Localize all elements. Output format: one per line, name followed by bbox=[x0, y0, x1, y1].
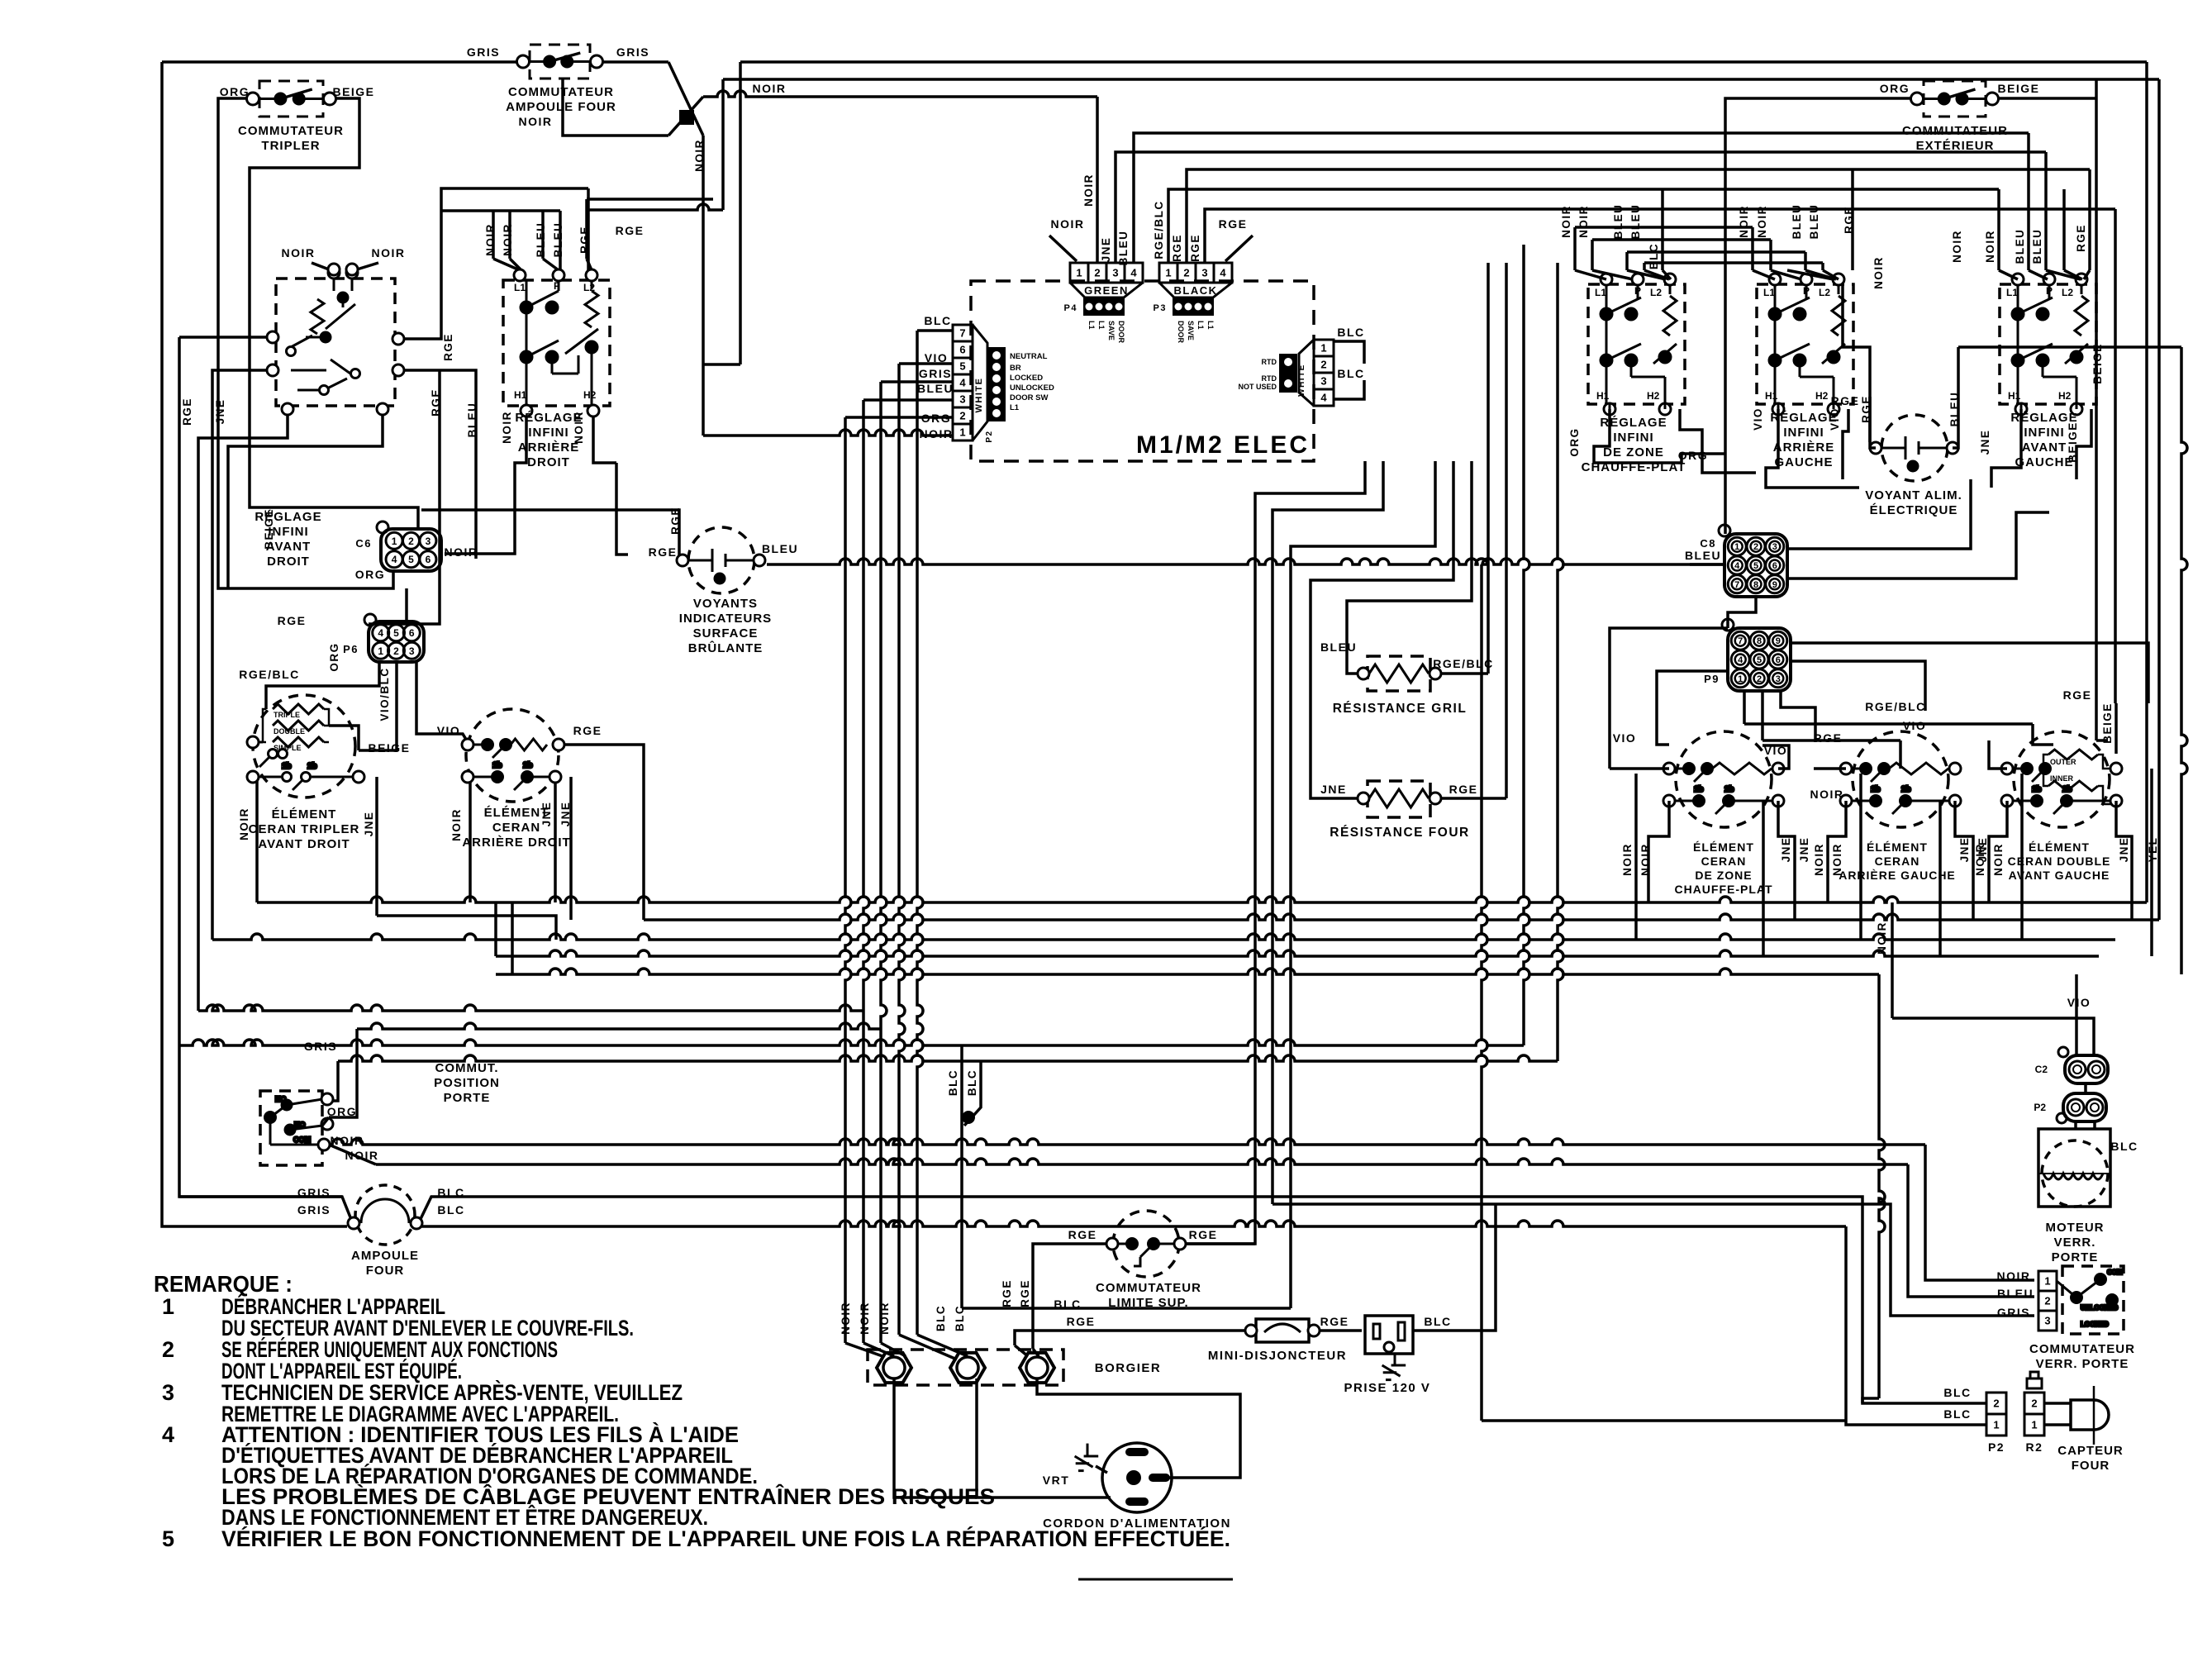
control réglage infini arrière droit box bbox=[503, 280, 610, 406]
wire fan avg P bbox=[2029, 270, 2048, 279]
svg-text:H1: H1 bbox=[514, 389, 527, 401]
svg-text:BEIGE: BEIGE bbox=[263, 508, 275, 550]
wire band drop 2455 BLEU avant gauche bbox=[2027, 133, 2030, 270]
wire bus v1110 bbox=[917, 331, 923, 1335]
svg-text:GRIS: GRIS bbox=[616, 45, 649, 59]
svg-text:BEIGE: BEIGE bbox=[332, 85, 374, 98]
wire ORG bus to WHITE cell2 bbox=[845, 416, 953, 419]
svg-text:RGE: RGE bbox=[1320, 1315, 1349, 1328]
wire band drop 2012 BLC zone bbox=[1661, 189, 1664, 270]
svg-text:VOYANT ALIM.ÉLECTRIQUE: VOYANT ALIM.ÉLECTRIQUE bbox=[1865, 488, 1962, 517]
control réglage infini arrière gauche internals bbox=[1769, 284, 1845, 409]
svg-text:BLC: BLC bbox=[1337, 326, 1364, 339]
svg-text:2b: 2b bbox=[523, 761, 533, 770]
wire Y5 left drop bbox=[511, 902, 514, 974]
wire JNE élément arr droit bbox=[554, 777, 557, 902]
svg-text:NOIR: NOIR bbox=[1984, 230, 1996, 263]
wire P9 bottom out3 bbox=[1781, 691, 1815, 742]
wire nest drop 2206 bbox=[1821, 263, 1824, 270]
wire VIO between zone bbox=[1762, 745, 1789, 769]
wire BLC pair v1164 bbox=[960, 1045, 963, 1308]
svg-text:P2: P2 bbox=[985, 430, 994, 442]
svg-text:1: 1 bbox=[1076, 267, 1082, 279]
svg-text:COM: COM bbox=[2107, 1269, 2123, 1276]
wire RGE/BLC res gril right bbox=[1487, 263, 1490, 674]
breaker arc bbox=[1264, 1324, 1301, 1332]
wire elem double NOIR2 drop bbox=[2020, 774, 2024, 940]
svg-text:VIO: VIO bbox=[925, 351, 949, 364]
wire fan zone BLC bbox=[1663, 270, 1671, 279]
wire NOIR leader GREEN pin1 bbox=[1049, 236, 1077, 261]
wire right border 2640 bbox=[2181, 347, 2187, 974]
svg-text:COMMUTATEURLIMITE SUP.: COMMUTATEURLIMITE SUP. bbox=[1096, 1281, 1201, 1310]
svg-text:VIO: VIO bbox=[437, 724, 461, 737]
terminal ceran double avant gauche left bbox=[2001, 763, 2013, 774]
svg-text:NC: NC bbox=[275, 1095, 286, 1103]
wire y441 link bbox=[703, 363, 740, 366]
wire RGE/BLC to élément triple bbox=[266, 662, 379, 709]
wire NOIR commut porte 1 bbox=[329, 1139, 1925, 1145]
wire x896 vertical bbox=[739, 62, 742, 364]
resistor triple bbox=[273, 704, 324, 714]
wire RC 1844 vertical bbox=[1524, 245, 1529, 1045]
wire Y7 bus bbox=[357, 1023, 881, 1029]
wire nest bus NOIR a bbox=[1575, 226, 1753, 229]
element arr droit lower contacts bbox=[473, 761, 549, 790]
terminal ceran arrière gauche bot-right bbox=[1949, 795, 1961, 807]
svg-text:RGE: RGE bbox=[573, 724, 602, 737]
svg-text:L2: L2 bbox=[583, 282, 595, 293]
svg-text:BLEU: BLEU bbox=[1808, 204, 1820, 240]
svg-text:3: 3 bbox=[959, 393, 965, 406]
wire elem arr gauche bot-right drop bbox=[1955, 801, 1973, 920]
wire fan zone P bbox=[1592, 270, 1633, 279]
svg-text:2b: 2b bbox=[1724, 785, 1734, 794]
wire C2 up to Y5 bbox=[2075, 974, 2078, 1055]
wire elem zone JNE2 drop bbox=[1762, 801, 1765, 956]
svg-text:JNE: JNE bbox=[540, 802, 553, 827]
terminal réglage infini arrière gauche H2 bbox=[1828, 403, 1839, 415]
svg-text:ORG: ORG bbox=[1568, 427, 1581, 456]
terminal ceran arrière gauche right bbox=[1949, 763, 1961, 774]
switch position porte internals bbox=[265, 1095, 323, 1145]
svg-text:GRIS: GRIS bbox=[297, 1186, 331, 1199]
svg-text:BEIGE: BEIGE bbox=[2091, 343, 2104, 384]
svg-text:7: 7 bbox=[1734, 580, 1739, 590]
svg-text:NOIR: NOIR bbox=[920, 427, 954, 440]
element ceran arrière gauche top path bbox=[1852, 764, 1890, 783]
svg-text:6: 6 bbox=[1776, 655, 1781, 665]
motor moteur verr porte box bbox=[2038, 1129, 2110, 1207]
svg-text:BLEU: BLEU bbox=[1685, 549, 1721, 562]
svg-text:NOIR: NOIR bbox=[693, 139, 706, 172]
wire fan hex3 b bbox=[1033, 1349, 1039, 1356]
wire nest bus BLEU b bbox=[1644, 261, 1823, 264]
element tripler switch bbox=[259, 742, 288, 767]
terminal ceran double avant gauche bot-right bbox=[2110, 795, 2122, 807]
svg-text:GRIS: GRIS bbox=[467, 45, 500, 59]
motor circle bbox=[2042, 1140, 2108, 1207]
wire NOIR leader a bbox=[312, 263, 329, 269]
svg-text:JNE: JNE bbox=[2118, 837, 2130, 863]
svg-text:VÉRIFIER LE BON FONCTIONNEMENT: VÉRIFIER LE BON FONCTIONNEMENT DE L'APPA… bbox=[221, 1526, 1230, 1551]
svg-text:BLEU: BLEU bbox=[466, 402, 478, 438]
note REMARQUE items bbox=[162, 1293, 1230, 1551]
wire Y3 bus bbox=[212, 934, 2115, 940]
wire fan Pb arr droit bbox=[559, 259, 562, 270]
wire ORG commut porte bbox=[329, 1029, 357, 1117]
terminal arr droit L1 bbox=[514, 269, 526, 281]
svg-text:NOIR: NOIR bbox=[878, 1302, 891, 1335]
terminal res four right bbox=[1429, 793, 1441, 804]
svg-text:COM: COM bbox=[293, 1136, 311, 1144]
wire BEIGE from comm ext to avant gauche bbox=[2096, 739, 2108, 742]
svg-text:2: 2 bbox=[1320, 359, 1326, 371]
svg-text:1: 1 bbox=[1165, 267, 1171, 279]
hexnut borgier 2 bbox=[950, 1353, 985, 1383]
svg-text:1b: 1b bbox=[2032, 785, 2042, 794]
svg-text:OUTER: OUTER bbox=[2050, 758, 2076, 766]
svg-text:NOIR: NOIR bbox=[753, 82, 787, 95]
svg-text:BLEU: BLEU bbox=[1320, 640, 1357, 654]
indicator voyant alim circle bbox=[1881, 415, 1948, 481]
wire VIO/BLC from P6 to élément bbox=[359, 662, 397, 750]
svg-text:3: 3 bbox=[409, 645, 415, 657]
element ceran arrière droit circle bbox=[466, 709, 559, 802]
svg-text:COMMUTATEURAMPOULE FOUR: COMMUTATEURAMPOULE FOUR bbox=[506, 85, 616, 114]
junction BLC pair bbox=[962, 1111, 975, 1124]
svg-text:4: 4 bbox=[1734, 561, 1740, 571]
svg-text:GRIS: GRIS bbox=[919, 367, 952, 380]
svg-text:NOIR: NOIR bbox=[1810, 788, 1844, 801]
wire JNE corner to Y3 bbox=[377, 916, 556, 940]
svg-text:6: 6 bbox=[426, 554, 431, 565]
wire GRIS top-left run bbox=[162, 60, 520, 64]
svg-text:VIO/BLC: VIO/BLC bbox=[378, 667, 391, 721]
svg-text:C6: C6 bbox=[355, 537, 372, 550]
svg-text:RGE: RGE bbox=[278, 614, 307, 627]
svg-text:YEL: YEL bbox=[2147, 837, 2159, 863]
svg-text:ORG: ORG bbox=[1880, 82, 1910, 95]
svg-text:P9: P9 bbox=[1704, 673, 1720, 685]
wire Y6 bus bbox=[198, 1005, 863, 1011]
svg-text:BLC: BLC bbox=[1943, 1407, 1971, 1421]
terminal tripler bot-left bbox=[247, 771, 259, 783]
wire elem zone bot-right drop bbox=[1778, 801, 1795, 920]
pin labels réglage infini avant gauche bbox=[2006, 285, 2073, 402]
svg-text:NOIR: NOIR bbox=[1560, 205, 1572, 238]
wire bus v1045 bbox=[863, 400, 869, 1343]
svg-text:VRT: VRT bbox=[1043, 1474, 1070, 1487]
connector GREEN trapezoid bbox=[1070, 283, 1143, 298]
svg-text:7: 7 bbox=[1738, 636, 1743, 646]
labels triple double simple bbox=[274, 711, 305, 752]
element ceran double avant gauche circle bbox=[2014, 731, 2110, 827]
wire RGE voyant source bbox=[1843, 284, 1870, 364]
wire BLEU voyant alim to right border bbox=[1958, 345, 2181, 349]
svg-text:RGE: RGE bbox=[1449, 783, 1478, 796]
svg-text:NOIR: NOIR bbox=[1992, 843, 2005, 876]
svg-text:NOIR: NOIR bbox=[840, 1302, 852, 1335]
wire fan L2 arr droit bbox=[587, 259, 592, 270]
terminal ceran arrière gauche bot-left bbox=[1840, 795, 1852, 807]
element ceran arrière gauche lower contacts bbox=[1852, 785, 1949, 814]
wire P9 left out bbox=[1657, 671, 1728, 745]
svg-text:NOIR: NOIR bbox=[573, 411, 585, 444]
svg-text:NOIR: NOIR bbox=[519, 115, 553, 128]
terminal res gril right bbox=[1429, 668, 1441, 679]
svg-text:5: 5 bbox=[1757, 655, 1762, 665]
wire réglage arr droit H2 drop bbox=[593, 411, 616, 463]
terminal réglage infini de zone chauffe-plat H2 bbox=[1659, 403, 1671, 415]
terminal réglage infini arrière gauche P bbox=[1801, 274, 1812, 285]
element tripler lower contacts bbox=[259, 762, 353, 790]
wire VIO into zone left bbox=[1610, 767, 1669, 770]
terminal avant droit P1a bbox=[328, 264, 340, 275]
wire RGE left vertical (217) bbox=[179, 337, 350, 1217]
terminal réglage infini arrière gauche L1 bbox=[1769, 274, 1781, 285]
wire RGE up from arr droit bbox=[587, 198, 713, 201]
wire fan hex1 a bbox=[845, 1343, 882, 1356]
svg-text:H1: H1 bbox=[1596, 390, 1610, 402]
terminal ceran arrière gauche left bbox=[1840, 763, 1852, 774]
svg-text:NEUTRAL: NEUTRAL bbox=[1010, 352, 1048, 361]
svg-text:H2: H2 bbox=[1647, 390, 1660, 402]
svg-text:4: 4 bbox=[378, 627, 383, 639]
terminal mini-disjoncteur right bbox=[1308, 1325, 1320, 1336]
svg-text:4: 4 bbox=[1130, 267, 1137, 279]
wire JNE élément tripler bbox=[375, 777, 378, 916]
wire RGE voyants up bbox=[616, 463, 628, 555]
svg-text:P3: P3 bbox=[1154, 303, 1167, 313]
svg-text:1: 1 bbox=[1738, 674, 1743, 684]
svg-text:BLC: BLC bbox=[1648, 243, 1660, 269]
terminal res four left bbox=[1358, 793, 1369, 804]
connector P6 bbox=[364, 614, 424, 662]
wire x2274 vertical bbox=[1879, 974, 1885, 1398]
svg-text:ORG: ORG bbox=[220, 85, 250, 98]
terminal réglage infini avant gauche L2 bbox=[2076, 274, 2087, 285]
svg-text:NOIR: NOIR bbox=[331, 1134, 364, 1147]
resistor élément arr droit bbox=[511, 739, 547, 750]
svg-text:WHITE: WHITE bbox=[974, 378, 984, 413]
svg-text:BLC: BLC bbox=[947, 1069, 959, 1096]
svg-text:BLC: BLC bbox=[935, 1305, 947, 1331]
pin text WHITE tiny bbox=[1010, 352, 1054, 412]
wire left border (196) down to ampoule four bbox=[162, 62, 347, 1226]
svg-text:7: 7 bbox=[959, 327, 965, 340]
svg-text:RGE: RGE bbox=[1001, 1279, 1013, 1307]
control avant droit internals bbox=[287, 267, 360, 395]
svg-text:L1: L1 bbox=[514, 282, 526, 293]
terminal ceran double avant gauche bot-left bbox=[2001, 795, 2013, 807]
wire ORG comm exterieur to C8 bbox=[1725, 98, 1917, 534]
svg-text:L1: L1 bbox=[1010, 403, 1020, 412]
svg-text:INNER: INNER bbox=[2050, 774, 2074, 783]
terminal avant droit bot2 bbox=[377, 403, 388, 415]
svg-text:NOIR: NOIR bbox=[345, 1149, 379, 1162]
lamp filament bbox=[361, 1199, 409, 1223]
svg-text:RGE: RGE bbox=[649, 545, 678, 559]
wire C8 bottom out bbox=[1728, 597, 1756, 628]
wire capteur BLC 2 corner bbox=[1482, 1419, 1846, 1422]
svg-text:BLEU: BLEU bbox=[2014, 229, 2026, 264]
svg-text:2: 2 bbox=[1757, 674, 1762, 684]
svg-text:1: 1 bbox=[1320, 342, 1326, 355]
svg-text:DOOR: DOOR bbox=[1117, 321, 1125, 344]
indicator voyants surface circle bbox=[688, 527, 754, 593]
svg-text:SAVE: SAVE bbox=[1187, 321, 1195, 340]
wire BLC ampoule upper bbox=[420, 1197, 1986, 1403]
svg-text:LOCKED: LOCKED bbox=[2081, 1321, 2109, 1328]
wire RGE/BLC élément line bbox=[1744, 722, 2033, 726]
wire NOIR drop from ampoule four switch bbox=[563, 79, 668, 136]
terminal ceran double avant gauche right bbox=[2110, 763, 2122, 774]
wire nest drop 2185 bbox=[1804, 252, 1807, 270]
terminal ampoule right bbox=[411, 1217, 422, 1229]
connector P2 motor bbox=[2063, 1093, 2106, 1121]
switch SW1 commutateur tripler bbox=[247, 81, 336, 117]
terminal position porte COM bbox=[318, 1139, 330, 1150]
svg-text:BLC: BLC bbox=[966, 1069, 978, 1096]
wire x534 riser bbox=[398, 188, 588, 339]
svg-text:1b: 1b bbox=[1871, 785, 1881, 794]
resistor ceran double avant gauche lower bbox=[2048, 781, 2098, 791]
wire fan avg L2a bbox=[2046, 270, 2081, 279]
wire Y1 bus bbox=[257, 897, 2147, 902]
svg-text:2b: 2b bbox=[2062, 785, 2072, 794]
wire right drop 2613 bbox=[2157, 79, 2161, 920]
wire BLEU voyant source bbox=[1957, 347, 1960, 364]
wire nest bus NOIR b bbox=[1592, 238, 1771, 241]
svg-text:BLEU: BLEU bbox=[1117, 231, 1130, 266]
svg-text:P4: P4 bbox=[1064, 303, 1077, 313]
svg-text:RGE/BLC: RGE/BLC bbox=[1153, 200, 1165, 259]
terminal ceran de zone chauffe-plat left bbox=[1663, 763, 1675, 774]
wire BLEU réglage avant droit down bbox=[398, 370, 476, 559]
svg-text:JNE: JNE bbox=[1798, 837, 1810, 863]
wire res four right corner bbox=[1441, 797, 1506, 800]
svg-text:BEIGE: BEIGE bbox=[1997, 82, 2039, 95]
resistor simple bbox=[273, 737, 324, 747]
wire RGE leader BLACK pin4 bbox=[1225, 236, 1253, 261]
switch SW2 commutateur ampoule four bbox=[517, 45, 603, 79]
svg-text:M1/M2 ELEC: M1/M2 ELEC bbox=[1136, 431, 1310, 459]
wire nest right drop 2560 bbox=[2114, 209, 2117, 703]
svg-text:6: 6 bbox=[959, 344, 965, 356]
svg-text:H1: H1 bbox=[1765, 390, 1778, 402]
resistor gril zigzag bbox=[1369, 664, 1429, 683]
wire P9 bottom out2 bbox=[1761, 691, 1764, 740]
labels ceran double avant gauche tiny bbox=[2050, 758, 2076, 783]
svg-text:NOIR: NOIR bbox=[1974, 843, 1986, 876]
svg-text:RGE: RGE bbox=[2063, 688, 2092, 702]
wire ORG position porte stub bbox=[322, 1117, 329, 1126]
svg-text:1: 1 bbox=[2044, 1275, 2050, 1288]
svg-text:L1: L1 bbox=[1206, 321, 1215, 330]
svg-text:3: 3 bbox=[1320, 375, 1326, 388]
connector P3 black bbox=[1173, 298, 1214, 316]
wire fan hex2 a bbox=[899, 1335, 957, 1359]
svg-text:BLC: BLC bbox=[1943, 1386, 1971, 1399]
wire RGE BLACK pin2 band bbox=[1187, 169, 2090, 263]
svg-text:P: P bbox=[1803, 285, 1810, 297]
svg-text:GRIS: GRIS bbox=[304, 1040, 337, 1053]
terminal réglage infini de zone chauffe-plat P bbox=[1632, 274, 1644, 285]
svg-text:NOIR: NOIR bbox=[1951, 230, 1963, 263]
wire Y2 bus bbox=[644, 914, 2159, 920]
wire fan hex1 b bbox=[863, 1343, 894, 1356]
wire M1M2 exit 1 bbox=[1185, 461, 1365, 1244]
svg-text:2b: 2b bbox=[1901, 785, 1911, 794]
connector R2 capteur cells bbox=[2024, 1393, 2044, 1436]
svg-text:1: 1 bbox=[959, 426, 965, 439]
wire ORG réglage zone H1 bbox=[1594, 409, 1725, 463]
svg-text:RGE: RGE bbox=[1843, 206, 1855, 234]
terminal ceran de zone chauffe-plat bot-left bbox=[1663, 795, 1675, 807]
wire fan hex1 c bbox=[881, 1343, 906, 1356]
svg-text:BORGIER: BORGIER bbox=[1095, 1361, 1162, 1375]
terminal réglage infini de zone chauffe-plat L2 bbox=[1664, 274, 1676, 285]
terminal réglage infini arrière gauche L2 bbox=[1833, 274, 1844, 285]
svg-text:RGE: RGE bbox=[578, 226, 591, 254]
battery symbol voyant alim bbox=[1881, 436, 1947, 471]
wire JNE réglage avant gauche H1 bbox=[1991, 409, 2021, 488]
terminal limite sup right bbox=[1174, 1238, 1186, 1250]
svg-text:L1: L1 bbox=[1595, 287, 1606, 298]
svg-text:NOIR: NOIR bbox=[1756, 205, 1768, 238]
svg-text:RGE: RGE bbox=[1067, 1315, 1096, 1328]
wire RGE from C6 area to voyants bbox=[421, 510, 679, 559]
wire NOIR élément tripler bbox=[255, 777, 259, 902]
svg-text:L1: L1 bbox=[1097, 321, 1106, 330]
wire fan arrg RGE bbox=[1823, 270, 1839, 279]
switch commutateur limite sup circle bbox=[1113, 1211, 1179, 1277]
connector P9 bbox=[1722, 619, 1791, 691]
wire elem arr gauche bot-left drop bbox=[1828, 801, 1846, 902]
svg-text:RGE: RGE bbox=[430, 388, 442, 417]
wire Y4 bus bbox=[496, 950, 2099, 956]
wire second top line to right bbox=[723, 78, 2159, 81]
svg-text:BLEU: BLEU bbox=[535, 222, 547, 258]
svg-text:2: 2 bbox=[2044, 1295, 2050, 1307]
connector C2 bbox=[2065, 1055, 2108, 1083]
wire P9 bottom out1 bbox=[1743, 691, 1746, 724]
wire moteur vio line bbox=[1891, 902, 1894, 1018]
svg-text:2: 2 bbox=[2031, 1397, 2037, 1410]
wire RC 1885 vertical bbox=[1558, 263, 1563, 1061]
svg-text:5: 5 bbox=[393, 627, 399, 639]
resistor résistance four box bbox=[1368, 781, 1430, 817]
note underline bbox=[1078, 1578, 1233, 1581]
wire prise BLC out bbox=[1413, 1204, 1496, 1331]
lamp ampoule four outer bbox=[355, 1185, 415, 1245]
svg-text:4: 4 bbox=[162, 1422, 174, 1447]
wire band y255 left bbox=[441, 209, 560, 212]
pin labels arrière droit bbox=[514, 280, 597, 401]
wire C8 right side out1 bbox=[1787, 479, 1971, 549]
resistor four zigzag bbox=[1369, 789, 1429, 807]
terminal réglage infini avant gauche H2 bbox=[2071, 403, 2082, 415]
terminal avant droit right2 bbox=[392, 364, 404, 376]
terminal limite sup left bbox=[1106, 1238, 1118, 1250]
wire GRIS commut porte bbox=[327, 1061, 338, 1101]
svg-text:2: 2 bbox=[1183, 267, 1189, 279]
wire BLEU into C8 bbox=[1690, 563, 1724, 566]
wire nest drop 2143 bbox=[1769, 240, 1772, 270]
wire JNE GREEN pin3 band bbox=[1116, 152, 2046, 263]
wire elem double left bbox=[1989, 740, 2007, 769]
